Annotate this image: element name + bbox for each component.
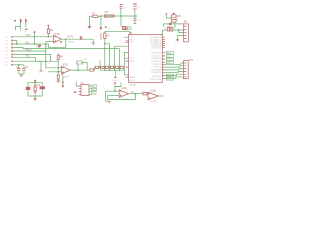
supply bar above R1 xyxy=(47,24,50,27)
switch S1 xyxy=(123,27,127,30)
svg-text:AGND: AGND xyxy=(99,33,102,40)
wire row3 xyxy=(14,43,49,45)
ground GND1 xyxy=(25,28,28,33)
wire opamp4 out xyxy=(158,95,163,97)
ground GND2 xyxy=(49,60,53,65)
svg-text:SIG: SIG xyxy=(26,56,30,58)
crystal circuit: wire loop xyxy=(28,83,42,87)
wire row7 xyxy=(14,57,58,61)
microcontroller U1 xyxy=(129,33,163,86)
net label RST xyxy=(127,27,131,30)
supply flag P2 xyxy=(19,17,22,26)
wire row8 xyxy=(14,60,46,62)
wire after R11 xyxy=(87,67,100,70)
capacitor C1 xyxy=(16,65,20,74)
wire bus to U1 xyxy=(124,70,128,75)
wire loop top of connector xyxy=(16,26,21,30)
resistor R3 (pull-up) xyxy=(104,31,111,44)
svg-text:OUT1: OUT1 xyxy=(67,37,74,39)
ground GND12 xyxy=(57,81,60,82)
svg-text:AREF: AREF xyxy=(130,76,136,79)
wire opamp2 out xyxy=(70,69,87,71)
svg-text:IC3A: IC3A xyxy=(122,87,128,90)
svg-text:ADC1: ADC1 xyxy=(26,48,33,51)
wire rail drop xyxy=(100,16,102,27)
diode D1 xyxy=(92,14,98,18)
resistor R10 inline xyxy=(90,69,94,71)
wire opamp1 out xyxy=(61,38,93,40)
resistor R9 above opamp2 xyxy=(57,54,63,72)
svg-text:PB1(OC1A): PB1(OC1A) xyxy=(150,78,161,81)
wire S2 down xyxy=(161,30,163,34)
svg-text:MEGA8: MEGA8 xyxy=(129,84,137,87)
power rail wire xyxy=(101,15,138,17)
svg-text:PD0(RXD): PD0(RXD) xyxy=(151,53,161,55)
svg-text:IC1A: IC1A xyxy=(54,33,60,36)
ground GND9 xyxy=(175,40,180,45)
net label B0 xyxy=(166,74,173,77)
wires U1 right to JP3 xyxy=(165,63,184,78)
net label D3 xyxy=(166,61,173,64)
resistor R4 xyxy=(101,66,104,68)
ground GND7 xyxy=(50,54,52,56)
ground GND10 xyxy=(33,99,36,100)
resistor R8 xyxy=(120,66,123,68)
test point TP1 xyxy=(80,37,82,39)
svg-text:PD7(AIN1): PD7(AIN1) xyxy=(151,71,161,74)
wire DAC bit2 from U1 xyxy=(115,46,129,66)
wire xyxy=(34,33,36,44)
wire drop row4 xyxy=(118,49,120,67)
capacitor C6 below rail xyxy=(133,16,140,23)
svg-text:PD6(AIN0): PD6(AIN0) xyxy=(151,68,161,71)
ground GND8 xyxy=(74,91,77,93)
wire out1 down xyxy=(92,39,94,43)
wire caps common xyxy=(19,74,24,76)
supply flag P1 top-left xyxy=(10,18,17,22)
resistor R5 xyxy=(106,66,109,68)
wire opamp1 -in xyxy=(14,36,54,38)
wire regulator out xyxy=(174,22,176,28)
svg-text:AVCC: AVCC xyxy=(130,79,136,82)
capacitor C4 xyxy=(120,4,127,16)
net label D0 xyxy=(166,51,173,54)
solder jumper SJ1 xyxy=(77,59,89,70)
wire mcu to opamp3 xyxy=(115,82,121,86)
wire row6 to gnd drop xyxy=(14,55,51,61)
svg-text:JP3: JP3 xyxy=(189,60,194,62)
switch S2 xyxy=(167,26,173,31)
capacitor C5 (bulk) xyxy=(133,4,141,16)
ground GND5 (power input) xyxy=(88,26,92,29)
svg-text:RXD: RXD xyxy=(167,53,172,55)
U1 right pin names xyxy=(150,36,161,81)
svg-text:VCC: VCC xyxy=(130,58,135,60)
svg-text:PC5(SCL): PC5(SCL) xyxy=(152,48,162,50)
U1 left pins xyxy=(124,37,129,58)
svg-text:VR1: VR1 xyxy=(177,16,182,18)
wire opamp1 +in xyxy=(46,41,54,43)
svg-text:GND: GND xyxy=(113,80,118,82)
U1 left pin names xyxy=(130,37,136,82)
wire row4 xyxy=(14,48,120,49)
resistor R1 (feedback top) xyxy=(47,26,53,37)
ground GND4 xyxy=(39,61,43,75)
op-amp IC3B xyxy=(148,91,158,104)
resistor R11 inline xyxy=(95,66,98,68)
svg-text:TXD: TXD xyxy=(167,56,172,58)
resistor R2 on rail xyxy=(104,12,114,17)
svg-text:SD: SD xyxy=(92,86,95,88)
U1 right pins xyxy=(162,37,165,78)
regulator VR1 xyxy=(165,13,181,22)
svg-text:PB0(ICP): PB0(ICP) xyxy=(152,76,161,78)
svg-text:PD4(T0): PD4(T0) xyxy=(153,64,161,66)
net label SCL xyxy=(92,88,97,91)
wire to jumper xyxy=(77,64,79,70)
wire into U2 xyxy=(76,82,78,87)
connector JP3 (bottom right) xyxy=(184,60,194,79)
connector JP2 (top right) xyxy=(183,22,188,42)
svg-text:PD5(T1): PD5(T1) xyxy=(153,67,161,69)
svg-text:LM358: LM358 xyxy=(63,76,70,78)
supply -V arrow 2 xyxy=(105,26,111,29)
wire row2 xyxy=(14,41,17,45)
svg-text:AG: AG xyxy=(107,27,110,30)
capacitor C2 xyxy=(22,65,29,74)
svg-text:GND: GND xyxy=(130,61,135,63)
wire opamp3 gnd loop xyxy=(106,91,110,101)
ground AGND1 xyxy=(38,44,41,47)
svg-text:IC2A: IC2A xyxy=(63,63,69,66)
supply +5V arrow xyxy=(31,29,35,44)
svg-text:LM358: LM358 xyxy=(68,41,75,43)
node row3 xyxy=(16,43,17,44)
op-amp IC2A xyxy=(61,63,70,78)
wire JP2 gnd xyxy=(178,36,184,40)
wire regulator left xyxy=(163,24,165,27)
svg-text:PD3(INT1): PD3(INT1) xyxy=(151,61,161,63)
wire opamp3 +in xyxy=(108,95,120,97)
ground GND11 xyxy=(108,101,111,102)
supply AGND arrow xyxy=(100,26,102,28)
svg-text:B+ B-: B+ B- xyxy=(165,27,171,29)
junction out1 xyxy=(65,39,66,40)
resistor R13 xyxy=(57,72,59,75)
svg-text:LM358: LM358 xyxy=(150,101,157,103)
wire ladder verticals to bus xyxy=(105,66,125,70)
net label D1 xyxy=(166,55,173,58)
ground GND13 xyxy=(92,43,95,44)
op-amp IC3A xyxy=(119,87,129,101)
wire row8 vertical xyxy=(46,42,62,68)
ground GND3 xyxy=(20,75,23,77)
resistor R7 xyxy=(115,66,118,68)
svg-text:PD1(TXD): PD1(TXD) xyxy=(152,55,162,57)
wire crystal gnd xyxy=(34,96,36,99)
wire R3 to mcu xyxy=(105,31,130,34)
LED D2 xyxy=(164,23,184,25)
ground GND6 xyxy=(113,70,118,82)
pin feed P4 xyxy=(114,82,116,92)
wire to opamp4 xyxy=(147,93,148,95)
svg-text:PD2(INT0): PD2(INT0) xyxy=(151,58,161,60)
op-amp IC1A xyxy=(54,33,62,43)
svg-text:IC3B: IC3B xyxy=(150,91,156,93)
supply -V arrow below opamp2 xyxy=(60,74,64,88)
wire opamp3 out xyxy=(129,93,144,95)
wire feedback opamp3 xyxy=(108,94,136,100)
wire drop R3 xyxy=(104,44,106,66)
wire ladder tap1 xyxy=(99,61,101,71)
svg-text:SC: SC xyxy=(92,89,95,91)
net label INT xyxy=(92,92,96,95)
pin dot op1 xyxy=(60,41,61,42)
wire R3 branch to ladder xyxy=(105,44,110,66)
wire opamp2 +in xyxy=(48,71,61,73)
wire summing bus xyxy=(100,69,124,71)
resistor R6 xyxy=(110,66,113,68)
svg-text:TP: TP xyxy=(80,39,83,41)
net label D2 xyxy=(166,58,173,61)
wire opamp3 -in xyxy=(106,90,120,92)
junction ladder nodes xyxy=(104,67,105,68)
net label B1 xyxy=(166,78,173,81)
wire row5 xyxy=(14,45,46,51)
connector JP1 pins xyxy=(5,36,14,67)
capacitor C8 xyxy=(40,86,46,89)
wire row9 xyxy=(14,64,24,66)
wires S2 to JP2 xyxy=(163,30,184,33)
crystal Q1 xyxy=(34,84,41,95)
IC U2 (8-pin) xyxy=(79,83,92,96)
capacitor C7 xyxy=(26,87,30,90)
feedback wire opamp1 xyxy=(48,39,65,47)
node VCC row1 xyxy=(34,36,35,37)
resistor R12 xyxy=(143,93,147,95)
wire to switch xyxy=(121,16,123,26)
supply flag P3 xyxy=(24,17,27,27)
net label SDA xyxy=(92,85,97,88)
wire xyxy=(20,23,22,27)
wire DAC bit3 from U1 xyxy=(124,52,128,66)
wire power feed xyxy=(89,16,100,25)
